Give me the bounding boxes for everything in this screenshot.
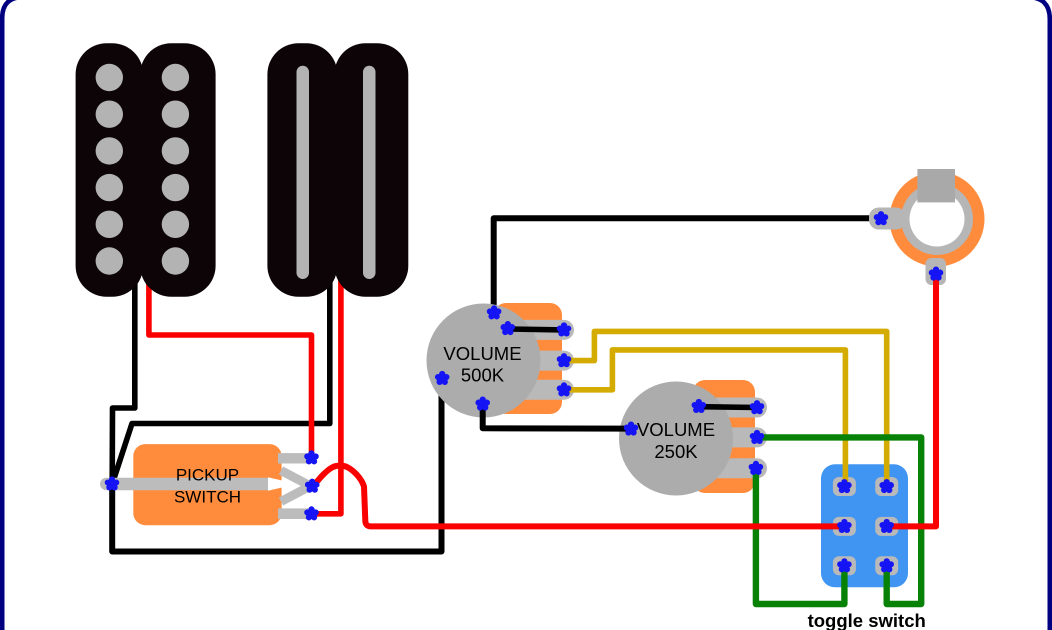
500K pot body	[494, 303, 562, 414]
solder dot: 500K lug2	[557, 353, 572, 367]
pickup switch	[100, 444, 311, 525]
toggle switch body	[821, 464, 908, 587]
solder dot: 250K lug1	[750, 400, 765, 414]
wire: 250K lug1 to casing	[699, 404, 757, 410]
250K lug 3	[698, 458, 767, 478]
bridge pickup (rail humbucker)	[267, 43, 408, 296]
solder dot: switch middle prong	[305, 479, 320, 493]
pickup switch lever	[100, 478, 274, 490]
250K pot body	[693, 380, 755, 493]
solder dot: 500K casing upper	[501, 321, 516, 335]
solder dot: 500K casing bottom	[475, 397, 490, 411]
solder dot: 250K lug3	[749, 461, 764, 475]
solder dot: 500K casing left	[435, 371, 450, 385]
jack bottom lug	[926, 258, 947, 285]
solder dot: toggle lug 2	[879, 479, 894, 493]
volume pot 250K	[619, 380, 767, 496]
wire: neck pickup red lead	[149, 260, 312, 458]
solder dot: 500K top	[487, 305, 502, 319]
wire: toggle to jack (red)	[888, 274, 936, 526]
wire: 500K lug3 to toggle (yellow)	[564, 350, 845, 487]
solder dot: switch lever	[105, 476, 120, 490]
solder dot: 250K casing left	[624, 422, 639, 436]
wire: neck pickup black lead	[112, 260, 135, 484]
svg-text:250K: 250K	[654, 441, 698, 462]
svg-text:VOLUME: VOLUME	[443, 343, 521, 364]
lever arrow notch	[268, 477, 297, 491]
toggle lug 6	[875, 556, 898, 575]
jack left lug overlay	[869, 208, 906, 230]
toggle lug 1	[833, 477, 856, 496]
solder dot: 500K lug1	[557, 322, 572, 336]
svg-text:VOLUME: VOLUME	[637, 419, 715, 440]
wire: 500K pot to output jack (black)	[494, 218, 880, 313]
wire: bridge pickup black lead	[112, 260, 330, 484]
pickup switch bottom prong	[278, 508, 310, 519]
toggle lug 5	[833, 556, 856, 575]
wire: 250K lug3 to toggle (green)	[756, 468, 845, 604]
solder dot: jack left lug	[874, 211, 889, 225]
pickup switch chevron prong	[281, 471, 311, 502]
svg-text:toggle switch: toggle switch	[808, 610, 926, 630]
250K lug 2	[698, 427, 767, 447]
500K lug 2	[505, 351, 574, 371]
wire: switch common to toggle (red)	[313, 466, 845, 527]
neck pickup (humbucker)	[76, 43, 216, 296]
solder dot: 250K lug2	[750, 430, 765, 444]
solder dot: toggle lug 1	[837, 479, 852, 493]
svg-text:SWITCH: SWITCH	[174, 488, 241, 507]
500K lug 1	[505, 320, 574, 340]
pickup switch body	[133, 444, 281, 525]
wire: bridge pickup red lead	[313, 260, 341, 514]
jack tab (gray square)	[917, 169, 955, 202]
svg-text:PICKUP: PICKUP	[176, 465, 239, 484]
wire: 500K lug2 to toggle (yellow)	[564, 331, 887, 487]
wire: 500K lug1 to casing	[508, 326, 564, 332]
wire: ground bus (black)	[112, 378, 441, 551]
solder dot: 250K casing upper	[692, 399, 707, 413]
wire: 500K casing to 250K casing (black)	[483, 404, 629, 429]
solder dot: toggle lug 6	[879, 558, 894, 572]
solder dot: toggle lug 3	[837, 519, 852, 533]
500K lug 3	[505, 380, 574, 400]
250K pot face	[619, 382, 733, 496]
jack hole	[910, 192, 965, 247]
svg-text:500K: 500K	[461, 365, 505, 386]
solder dot: switch bottom prong	[304, 506, 319, 520]
toggle lug 2	[875, 477, 898, 496]
jack left lug	[869, 208, 906, 230]
solder dot: toggle lug 5	[837, 558, 852, 572]
500K pot face	[427, 304, 541, 418]
volume pot 500K	[427, 303, 575, 418]
toggle lug 4	[875, 517, 898, 536]
250K lug 1	[698, 398, 767, 418]
toggle lug 3	[833, 517, 856, 536]
wire: 250K lug2 to toggle (green)	[757, 437, 921, 604]
solder dot: toggle lug 4	[879, 519, 894, 533]
jack ring (orange)	[890, 172, 985, 267]
toggle switch	[821, 464, 908, 587]
output jack	[869, 169, 985, 285]
solder dot: switch top prong	[304, 450, 319, 464]
jack sleeve ring (gray)	[901, 183, 973, 255]
solder dot: 500K lug3	[557, 382, 572, 396]
pickup switch top prong	[278, 453, 310, 463]
solder dot: jack bottom lug	[929, 267, 944, 281]
